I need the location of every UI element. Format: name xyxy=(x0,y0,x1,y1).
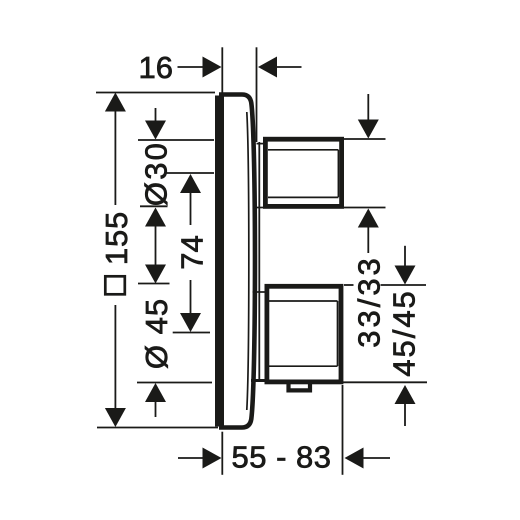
extension line D30 bottom left xyxy=(140,205,168,207)
extension line knob1 top right xyxy=(344,138,386,140)
extension line knob2 bottom right xyxy=(342,381,427,383)
handle 1 inner front line xyxy=(337,150,339,197)
extension line 55-83 right xyxy=(342,385,344,475)
handle 1 inner top line xyxy=(268,149,339,151)
arrow 155 bottom xyxy=(105,408,126,427)
arrow 45-45 top xyxy=(395,266,416,285)
extension line D45 top left xyxy=(138,283,170,285)
extension line knob1 bottom right xyxy=(344,207,386,209)
arrow D30 top xyxy=(145,121,166,140)
svg-text:155: 155 xyxy=(99,211,134,265)
arrow 74 top xyxy=(180,174,201,193)
dimension line 45-45 top tail xyxy=(404,246,406,266)
escutcheon plate back edge xyxy=(215,96,224,427)
dimension line 33-33 top tail xyxy=(367,94,369,121)
handle 1 inner bottom line xyxy=(268,196,339,198)
extension line 55-83 left xyxy=(221,432,223,475)
dimension line 155 upper xyxy=(114,110,116,205)
extension line D30 top left xyxy=(138,139,214,141)
arrow 55-83 right xyxy=(345,448,364,469)
escutcheon plate front inner contour xyxy=(247,112,249,410)
dimension line D45 bottom tail xyxy=(155,401,157,417)
dimension line 16 right tail xyxy=(277,66,302,68)
extension line knob2 top short xyxy=(344,284,354,286)
arrow 74 bottom xyxy=(180,313,201,332)
handle 2 inner bottom line xyxy=(269,365,338,367)
extension line 16 left xyxy=(221,47,223,94)
extension line 16 right xyxy=(256,47,258,142)
dimension line 16 left tail xyxy=(178,66,204,68)
svg-text:16: 16 xyxy=(139,50,173,85)
handle 1 stem top edge xyxy=(257,143,266,145)
handle 2 bottom tab xyxy=(289,383,311,390)
handle 2 stem bottom edge xyxy=(251,379,266,382)
handle 2 (bottom knob) outline xyxy=(267,286,341,382)
escutcheon plate outline xyxy=(219,95,255,428)
dimension line D30-D45 middle tail xyxy=(155,225,157,266)
extension line 45-45 top tick xyxy=(381,284,427,286)
svg-text:Ø 45: Ø 45 xyxy=(139,298,174,369)
dimension line D30 top tail xyxy=(155,108,157,122)
svg-text:55 - 83: 55 - 83 xyxy=(231,439,331,474)
svg-text:33/33: 33/33 xyxy=(352,255,387,348)
extension line 155 top xyxy=(96,92,215,94)
arrow 155 top xyxy=(105,93,126,112)
svg-text:45/45: 45/45 xyxy=(387,289,422,377)
svg-text:Ø30: Ø30 xyxy=(139,141,174,206)
dimension line 33-33 bottom tail xyxy=(367,227,369,254)
arrow 33-33 bottom xyxy=(358,209,379,228)
arrow D45 top xyxy=(145,265,166,284)
arrow 45-45 bottom xyxy=(395,385,416,404)
arrow D45 bottom xyxy=(145,383,166,402)
extension line 74 top xyxy=(167,172,215,174)
extension line 74 bottom xyxy=(173,332,210,334)
dimension line 55-83 left tail xyxy=(178,457,204,459)
arrow 55-83 left xyxy=(203,448,222,469)
handle 1 (top knob) outline xyxy=(265,139,341,206)
dimension line 45-45 bottom tail xyxy=(404,402,406,426)
handle 1 stem bottom edge xyxy=(257,207,264,209)
extension line D45 bottom left xyxy=(137,382,212,384)
dimension line 74 upper tail xyxy=(190,192,192,225)
dimension line 155 lower xyxy=(114,305,116,409)
arrow D30 bottom xyxy=(145,208,166,227)
cartridge sleeve line xyxy=(258,142,260,382)
dim square symbol xyxy=(105,276,125,294)
handle 2 stem top edge xyxy=(253,291,267,293)
dimension line 74 lower tail xyxy=(190,280,192,314)
handle 2 inner top line xyxy=(269,300,338,302)
dimension line 55-83 right tail xyxy=(363,457,390,459)
arrow 16 right xyxy=(258,57,277,78)
svg-text:74: 74 xyxy=(175,235,210,269)
arrow 16 left xyxy=(203,57,222,78)
extension line 155 bottom xyxy=(97,427,218,429)
handle 2 inner front line xyxy=(337,301,339,366)
arrow 33-33 top xyxy=(358,120,379,139)
